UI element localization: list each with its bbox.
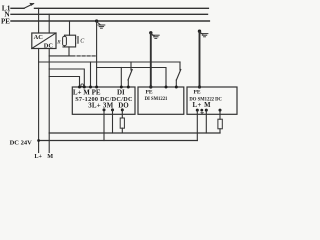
resistor load R2	[120, 118, 124, 128]
wire L+ sensor line	[39, 61, 180, 63]
wire M to earth link (dashed part)	[77, 55, 97, 57]
switch S1 at CPU DI-b	[130, 62, 132, 70]
node PE junction dot	[95, 19, 98, 22]
node CPU bottom terminal dots	[103, 108, 106, 111]
capacitor C1	[76, 37, 78, 44]
wire CPU 3M to M bus	[112, 110, 114, 133]
ground earth symbol for DI module	[149, 31, 152, 34]
wire DO output	[219, 110, 221, 133]
svg-text:3L+ 3M: 3L+ 3M	[88, 101, 113, 109]
wire L+ vertical rail	[38, 49, 40, 153]
node DO bottom terminal dots	[196, 109, 199, 112]
wire PE bus	[11, 20, 209, 22]
wire L1 bus left segment	[11, 7, 24, 9]
ground earth symbol for DO module	[198, 30, 201, 33]
svg-text:DC: DC	[44, 43, 54, 50]
wire PE tap to RC loop	[69, 21, 71, 35]
wire PE drop to DO module	[199, 32, 201, 87]
wire M to earth link (solid part)	[49, 55, 75, 57]
svg-text:DI SM1221: DI SM1221	[145, 97, 168, 102]
svg-text:DO: DO	[118, 101, 129, 109]
wire branch down to CPU DI-a	[120, 68, 122, 88]
wire M line to CPU L+ terminal	[49, 77, 79, 88]
AC/DC power supply U1	[32, 33, 56, 49]
wire N drop to AC/DC	[48, 14, 50, 33]
wire L1 drop to AC/DC	[38, 8, 40, 33]
svg-text:PE: PE	[1, 18, 10, 26]
wire N bus	[11, 13, 208, 15]
ground mark at CPU M terminal	[81, 84, 84, 87]
wire CPU DO output	[121, 110, 123, 133]
wire 1M line from PE drop to DI commons	[97, 68, 166, 88]
resistor load R3	[218, 119, 222, 129]
svg-text:M: M	[47, 153, 53, 160]
svg-text:PE: PE	[146, 90, 153, 96]
wire DO L+ to L+ bus	[196, 110, 198, 140]
svg-text:L+ M: L+ M	[193, 102, 212, 109]
RC loop wiring	[63, 35, 76, 47]
wire L+ distribution bus bottom	[39, 140, 198, 142]
DI module U3 SM1221	[138, 87, 184, 114]
wire PE drop to CPU	[96, 21, 98, 87]
svg-text:DC 24V: DC 24V	[10, 139, 33, 146]
wire branch to CPU PE terminal	[90, 62, 92, 87]
CPU module U2 S7-1200	[72, 87, 135, 114]
node CPU terminal dots top	[78, 86, 81, 89]
wire M vertical rail	[48, 49, 50, 153]
svg-text:L+: L+	[34, 153, 42, 160]
ground earth symbol at PE junction	[97, 22, 100, 25]
wire M line to CPU M terminal	[49, 69, 84, 87]
wire PE drop to DI module	[150, 34, 152, 88]
wire RC loop bottom drop	[68, 47, 70, 56]
DO module U4 SM1222	[187, 87, 237, 114]
svg-text:R: R	[56, 39, 61, 45]
wire CPU 3L+ to L+ bus	[103, 110, 105, 141]
ground mark below DO M terminal	[201, 112, 203, 113]
wire M distribution bus bottom	[49, 132, 220, 134]
wire DO M to M bus	[205, 110, 207, 133]
switch Q1 on L1 line	[24, 4, 34, 9]
switch S2 at DI module input	[179, 62, 181, 70]
svg-text:AC: AC	[34, 34, 44, 41]
wire L1 bus right segment	[35, 7, 209, 9]
node junction dot L+ bus	[37, 139, 40, 142]
svg-text:PE: PE	[194, 90, 201, 96]
